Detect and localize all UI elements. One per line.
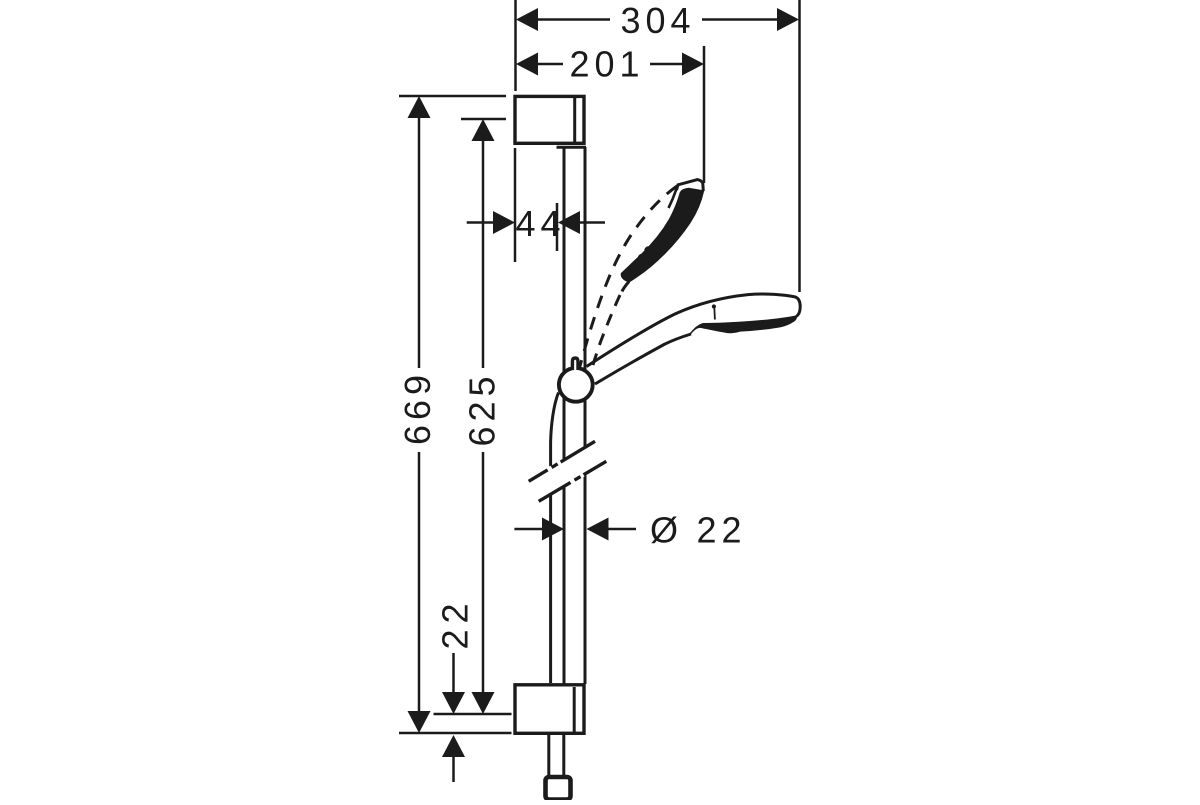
arrowhead 669 down xyxy=(408,711,431,733)
dashed phantom curve A (handle top, alt position) xyxy=(576,186,678,381)
arrowhead 201 right xyxy=(682,53,704,76)
upper head nozzle beads xyxy=(644,246,652,254)
arrowhead 304 left xyxy=(516,8,538,31)
extension line right x=799 xyxy=(798,0,801,292)
arrowhead 625 down xyxy=(472,692,495,714)
break mark lower xyxy=(539,461,607,501)
extension line 44 left x=515 (below bracket) xyxy=(514,148,517,262)
extension line 625 top xyxy=(461,118,506,121)
hand shower handle bottom edge xyxy=(595,334,691,384)
arrowhead 44 pointing left xyxy=(558,211,580,234)
dimension 22 lower stem xyxy=(452,755,455,782)
extension line 625 bottom / 22 top xyxy=(434,713,512,716)
extension line 669 top xyxy=(399,95,506,98)
bottom bracket xyxy=(515,685,584,734)
slider knob xyxy=(572,358,578,370)
hose nut xyxy=(546,777,571,800)
break gap upper xyxy=(548,467,552,470)
head spray face band (lower head) xyxy=(690,316,797,335)
arrowhead 22 up xyxy=(442,735,465,757)
bar shoulder under top bracket xyxy=(557,146,587,149)
arrowhead diameter22 pointing right xyxy=(542,518,564,541)
arrowhead 625 up xyxy=(472,119,495,141)
dimension line 201 xyxy=(534,63,563,66)
svg-text:44: 44 xyxy=(515,203,565,244)
break mark upper xyxy=(529,441,595,481)
wall bar xyxy=(557,147,587,684)
slider holder circle xyxy=(559,368,593,402)
bottom bracket divider xyxy=(573,687,576,733)
upper head cap xyxy=(677,180,704,191)
dimension line 304 xyxy=(534,18,610,21)
svg-text:625: 625 xyxy=(462,371,503,446)
svg-text:304: 304 xyxy=(620,0,695,41)
svg-text:Ø: Ø xyxy=(650,510,678,551)
head joint pin xyxy=(712,304,716,308)
boundary line 44 right x=557 xyxy=(556,203,559,251)
arrowhead 44 pointing right xyxy=(493,211,515,234)
arrowhead 669 up xyxy=(408,96,431,118)
upper head back edge line xyxy=(669,189,677,208)
arrowhead diameter22 pointing left xyxy=(587,518,609,541)
arrowhead 22 down xyxy=(442,692,465,714)
dimension line 669 vertical x=419 xyxy=(418,117,421,368)
dimension line diameter 22 xyxy=(514,528,543,531)
dashed phantom curve B (handle bottom, alt position) xyxy=(591,295,621,374)
extension line 669 bottom / 22 bottom xyxy=(399,732,512,735)
dimension line 44 xyxy=(467,221,494,224)
svg-text:669: 669 xyxy=(397,370,438,445)
hose upper (curving from slider to bottom bracket) xyxy=(551,393,559,469)
extension line 201 right x=704 xyxy=(703,46,706,183)
svg-text:22: 22 xyxy=(435,597,476,649)
upper head tail (solid continuation of band tip) xyxy=(622,282,629,292)
dimension line 625 vertical x=483 xyxy=(482,140,485,368)
top bracket divider xyxy=(573,97,576,143)
hand shower handle top edge + head top + cap xyxy=(587,294,801,367)
svg-text:22: 22 xyxy=(697,510,747,551)
arrowhead 201 left xyxy=(516,53,538,76)
upper head spray face band xyxy=(621,189,703,282)
hose below bottom bracket xyxy=(547,734,550,778)
dimension line 22 vertical x=453.5 xyxy=(452,653,455,693)
arrowhead 304 right xyxy=(777,8,799,31)
extension line left x=515 (top) xyxy=(514,0,517,91)
break gap lower xyxy=(571,480,575,482)
svg-text:201: 201 xyxy=(569,44,644,85)
top bracket xyxy=(515,96,584,143)
